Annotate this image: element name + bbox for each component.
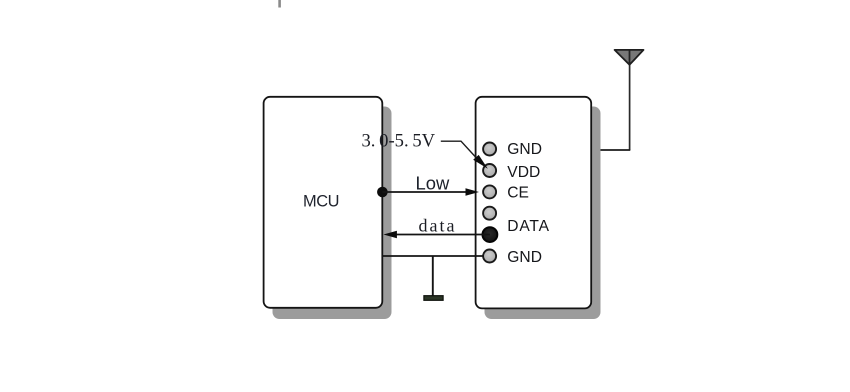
- svg-text:data: data: [419, 215, 457, 235]
- node junction on MCU edge: [377, 187, 388, 198]
- ground symbol: [424, 296, 443, 301]
- svg-text:GND: GND: [507, 249, 542, 266]
- MCU box U1: [264, 97, 383, 308]
- wire Low, MCU to CE: [382, 191, 472, 193]
- svg-text:3. 0-5. 5V: 3. 0-5. 5V: [362, 131, 436, 152]
- wire ground bus: MCU to GND pin: [382, 255, 483, 257]
- wire ground drop: [432, 256, 434, 296]
- svg-text:Low: Low: [416, 173, 450, 194]
- antenna ANT feed line: [629, 51, 631, 151]
- svg-text:DATA: DATA: [507, 218, 549, 235]
- pin 2 VDD pad: [483, 164, 496, 177]
- pin 3 CE pad: [483, 185, 496, 198]
- pin 5 DATA pad (dark): [483, 227, 498, 242]
- antenna center ridge: [629, 51, 631, 65]
- svg-text:MCU: MCU: [303, 193, 339, 211]
- wire top-left gray stub: [278, 0, 281, 8]
- wire data, DATA pin to MCU: [392, 234, 490, 236]
- pin 6 GND pad: [483, 250, 496, 263]
- antenna ANT triangle: [615, 50, 644, 65]
- arrowhead into MCU: [383, 231, 397, 239]
- arrowhead to VDD pin: [473, 155, 488, 169]
- svg-text:VDD: VDD: [507, 164, 540, 181]
- MCU box shadow: [273, 107, 392, 320]
- RF module box U2: [476, 97, 592, 309]
- arrowhead into CE: [466, 188, 480, 196]
- RF module box shadow: [485, 107, 601, 320]
- pin 1 GND pad: [483, 143, 496, 156]
- wire 3.0-5.5V leader: [441, 141, 476, 157]
- wire antenna to module: [593, 149, 630, 151]
- pin 4 unlabeled pad: [483, 207, 496, 220]
- svg-text:CE: CE: [507, 185, 529, 202]
- svg-text:GND: GND: [507, 141, 542, 158]
